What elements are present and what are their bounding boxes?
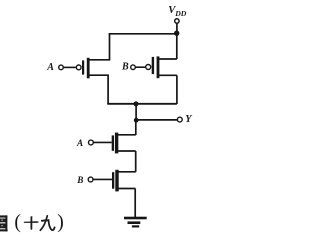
- wire VDD stub: [176, 23, 178, 33]
- power VDD label: [168, 5, 187, 18]
- wire gate B (pmos): [136, 66, 145, 68]
- pmos Q2 (input B): [146, 56, 177, 78]
- caption glyph 十: [24, 216, 40, 230]
- wire Q1 drain riser: [107, 75, 109, 104]
- wire output Y: [136, 119, 177, 121]
- svg-text:DD: DD: [174, 9, 187, 18]
- wire Q4 source to ground: [134, 189, 136, 218]
- wire Q2 drain riser: [176, 75, 178, 104]
- pmos Q1 (input A): [76, 58, 110, 79]
- wire Y node to Q3 drain: [135, 120, 137, 135]
- label B (nmos input): [76, 175, 83, 185]
- nmos Q4 (input B): [112, 170, 136, 192]
- caption 圖(十九) : glyph 圖 clipped fragment: [0, 215, 8, 231]
- svg-text:A: A: [46, 62, 54, 73]
- wire drain junction to output node: [135, 104, 137, 120]
- wire gate A (nmos): [94, 141, 112, 143]
- node output Y junction: [134, 118, 139, 123]
- node VDD junction: [174, 31, 179, 36]
- svg-text:(: (: [14, 212, 21, 233]
- terminal input B (pmos): [131, 65, 136, 70]
- ground: [124, 217, 147, 228]
- svg-text:A: A: [76, 138, 83, 148]
- label B (pmos input): [121, 61, 129, 72]
- wire top rail: [109, 33, 177, 35]
- label A (nmos input): [76, 138, 83, 148]
- svg-text:B: B: [76, 175, 83, 185]
- label Y: [185, 114, 192, 125]
- wire VDD vertical to Q2 source: [176, 33, 178, 59]
- terminal input B (nmos): [88, 177, 93, 182]
- terminal VDD: [175, 19, 179, 23]
- caption glyph 九: [40, 216, 54, 231]
- svg-text:): ): [57, 212, 64, 233]
- caption close paren: [57, 212, 64, 233]
- caption open paren: [14, 212, 21, 233]
- wire Q3 source to Q4 drain: [135, 151, 137, 172]
- terminal output Y: [177, 117, 182, 122]
- node drain junction: [134, 101, 139, 106]
- terminal input A (pmos): [59, 65, 64, 70]
- terminal input A (nmos): [89, 140, 94, 145]
- wire drain rail: [107, 103, 177, 105]
- wire gate A (pmos): [64, 66, 76, 68]
- nmos Q3 (input A): [112, 133, 136, 154]
- svg-text:B: B: [121, 61, 129, 72]
- wire left riser rail to Q1 source: [109, 33, 111, 60]
- wire gate B (nmos): [93, 178, 112, 180]
- label A (pmos input): [46, 62, 54, 73]
- svg-text:Y: Y: [185, 114, 192, 125]
